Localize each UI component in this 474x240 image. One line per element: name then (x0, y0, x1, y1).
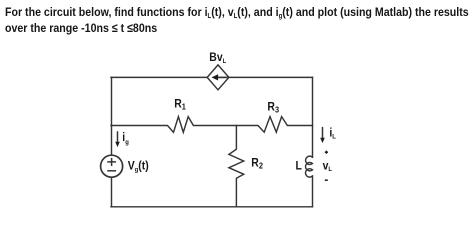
svg-text:vL: vL (323, 160, 333, 173)
svg-text:L: L (296, 160, 302, 173)
svg-text:ig: ig (122, 132, 129, 146)
svg-text:R2: R2 (251, 157, 263, 171)
svg-text:BvL: BvL (209, 52, 226, 65)
svg-text:R1: R1 (174, 98, 186, 112)
svg-text:Vg(t): Vg(t) (128, 160, 149, 174)
svg-text:iL: iL (329, 127, 336, 140)
svg-text:R3: R3 (267, 101, 279, 115)
